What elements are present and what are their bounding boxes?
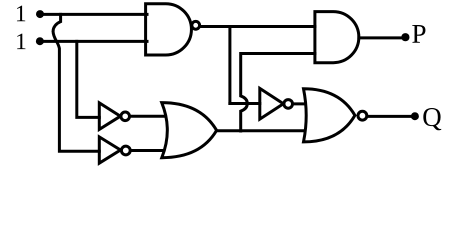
wire NOR output to Q [367, 115, 415, 118]
wire branch B down to upper inverter [77, 41, 100, 117]
middle inverter [260, 88, 293, 119]
node dot output Q [411, 112, 419, 120]
wire NAND output to AND gate top input [200, 25, 315, 28]
input label 1 (top) [17, 6, 25, 22]
wire AND output to P [359, 36, 406, 39]
node dot input B [36, 37, 44, 45]
NOR gate [304, 89, 367, 142]
input label 1 (bottom) [17, 34, 25, 50]
AND gate [315, 12, 359, 63]
wire input B to NAND bottom input [40, 40, 147, 43]
upper small inverter [99, 103, 129, 129]
wire lower inverter output to OR gate [130, 149, 168, 152]
wire upper inverter output to OR gate [130, 115, 169, 118]
node dot output P [401, 33, 409, 41]
lower small inverter [99, 137, 130, 163]
wire input A to NAND top input [40, 13, 147, 16]
OR gate [162, 103, 217, 158]
output label P [412, 25, 425, 43]
wire branch A down with hop over input B wire, to lower inverter [53, 14, 99, 151]
wire NAND output branch down [228, 27, 231, 104]
wire OR output to NOR gate bottom input [217, 129, 308, 132]
NAND gate [146, 4, 200, 55]
output label Q [423, 108, 441, 130]
wire OR output branch up to AND gate bottom input, with hop over inverter wire [241, 54, 315, 132]
node dot input A [36, 10, 44, 18]
wire to middle inverter input [230, 102, 260, 105]
wire middle inverter output to NOR gate top input [293, 102, 307, 105]
